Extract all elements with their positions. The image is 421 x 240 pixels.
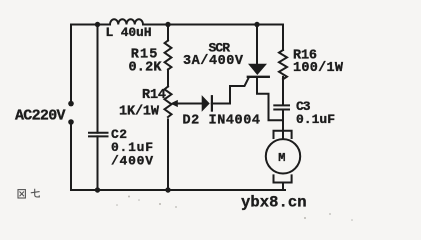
svg-text:/400V: /400V <box>111 153 153 168</box>
svg-text:ybx8.cn: ybx8.cn <box>241 193 307 211</box>
svg-text:AC220V: AC220V <box>15 108 66 125</box>
svg-text:3A/400V: 3A/400V <box>183 54 244 69</box>
svg-text:R14: R14 <box>142 88 166 103</box>
svg-text:D2 IN4004: D2 IN4004 <box>183 114 261 129</box>
svg-text:L 40uH: L 40uH <box>106 25 152 40</box>
svg-text:M: M <box>278 151 285 165</box>
svg-text:100/1W: 100/1W <box>293 61 344 76</box>
svg-text:0.1uF: 0.1uF <box>296 112 335 127</box>
svg-text:1K/1W: 1K/1W <box>119 105 160 120</box>
svg-text:0.2K: 0.2K <box>129 60 163 75</box>
